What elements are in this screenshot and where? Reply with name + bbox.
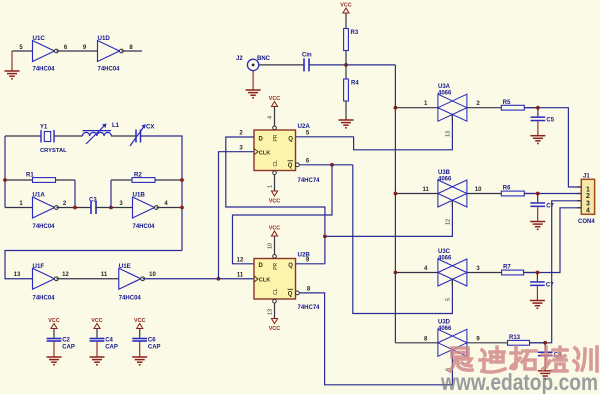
svg-text:U1B: U1B: [133, 192, 146, 199]
wire U3C input: [395, 266, 438, 273]
wire feedback to U1F: [5, 251, 182, 279]
resistor R3: [344, 13, 359, 65]
svg-text:Cin: Cin: [302, 53, 312, 59]
wire U1E out to U2B CLK: [143, 272, 255, 279]
wire R7 to junction: [524, 272, 538, 274]
node QB/U3B-ctrl: [323, 235, 327, 239]
svg-text:4066: 4066: [438, 256, 452, 262]
svg-text:C2: C2: [62, 338, 70, 344]
wire L1-CX: [111, 135, 136, 137]
U3A control pin 13: [446, 115, 453, 137]
connector J2 BNC: [236, 56, 271, 71]
svg-text:Y1: Y1: [40, 125, 48, 131]
svg-text:74HC04: 74HC04: [33, 67, 56, 73]
svg-text:D: D: [259, 137, 264, 143]
svg-text:C6: C6: [148, 338, 156, 344]
wire U3A to J1: [524, 108, 581, 187]
U2B CLR pin 13: [268, 299, 277, 318]
J1 pin 3: [577, 200, 590, 207]
svg-text:11: 11: [101, 272, 108, 278]
svg-text:PR: PR: [273, 262, 279, 269]
U2B PRE pin 10: [268, 236, 277, 258]
svg-text:CRYSTAL: CRYSTAL: [40, 148, 67, 154]
wire Qbar to U3C control: [353, 165, 453, 314]
svg-text:R5: R5: [503, 100, 511, 106]
svg-text:R13: R13: [509, 335, 521, 341]
node U1B-out: [180, 206, 184, 210]
wire U3D input: [395, 336, 438, 343]
ground (C2): [47, 357, 62, 365]
svg-text:C5: C5: [546, 118, 554, 124]
svg-text:R4: R4: [351, 81, 359, 87]
wire U2B Q: [296, 257, 325, 264]
svg-text:www.edatop.com: www.edatop.com: [440, 369, 598, 394]
svg-text:Q: Q: [288, 292, 293, 298]
node R7/C7: [536, 271, 540, 275]
wire U2A Qbar: [299, 158, 353, 165]
svg-text:11: 11: [423, 187, 430, 193]
svg-text:12: 12: [62, 272, 69, 278]
wire U1B out: [156, 201, 182, 208]
VCC (U2B PRE): [269, 226, 280, 237]
svg-text:CAP: CAP: [62, 345, 75, 351]
wire Cin to rail: [309, 64, 395, 66]
svg-text:U2A: U2A: [298, 123, 311, 130]
wire U3D output: [467, 336, 508, 343]
capacitor Cin: [302, 53, 312, 72]
resistor R2: [111, 173, 182, 208]
svg-text:CLK: CLK: [259, 151, 271, 157]
watermark: [440, 347, 598, 394]
node C3/R2 junction: [109, 206, 113, 210]
svg-text:CL: CL: [273, 288, 279, 295]
svg-text:1: 1: [268, 185, 274, 188]
resistor R5: [501, 100, 524, 110]
wire U1A out: [56, 201, 91, 208]
J1 pin 2: [577, 193, 590, 200]
wire U2A Q to U3A control: [296, 115, 453, 150]
node R3/R4 junction: [344, 63, 348, 67]
svg-text:C4: C4: [105, 338, 113, 344]
wire U1F-U1E: [56, 272, 118, 279]
svg-text:CAP: CAP: [148, 345, 161, 351]
ground (C7): [530, 222, 545, 230]
resistor R4: [344, 65, 360, 120]
svg-text:VCC: VCC: [269, 326, 280, 332]
node R5/C5: [536, 106, 540, 110]
wire QB to U3B control: [325, 201, 453, 236]
U3D control pin 6: [446, 350, 453, 371]
analog switch U3D 4066: [438, 319, 467, 356]
analog switch U3C 4066: [438, 249, 467, 286]
wire to crystal: [5, 135, 41, 137]
svg-text:U1E: U1E: [119, 263, 131, 270]
ground (R4): [339, 120, 354, 128]
inverter U1B: [133, 192, 159, 231]
wire BNC-Cin: [259, 64, 304, 66]
wire U3C output: [467, 266, 502, 273]
svg-text:4: 4: [268, 116, 274, 119]
svg-text:74HC04: 74HC04: [33, 224, 56, 230]
svg-text:CAP: CAP: [105, 345, 118, 351]
analog switch U3B 4066: [438, 170, 467, 207]
svg-text:10: 10: [268, 243, 274, 249]
resistor R7: [502, 265, 524, 275]
svg-text:74HC74: 74HC74: [298, 178, 321, 184]
svg-text:12: 12: [446, 219, 452, 225]
svg-text:4: 4: [586, 207, 590, 214]
U3B control pin 12: [446, 201, 453, 226]
svg-text:10: 10: [475, 187, 482, 193]
svg-text:3: 3: [586, 200, 590, 207]
svg-text:74HC04: 74HC04: [133, 224, 156, 230]
svg-text:2: 2: [586, 193, 590, 200]
ground (C7): [530, 301, 545, 309]
svg-text:U1D: U1D: [98, 35, 111, 42]
VCC (C2): [48, 318, 59, 329]
wire R13 to junction: [530, 342, 546, 344]
svg-text:R3: R3: [351, 30, 359, 36]
wire R6 to junction: [524, 193, 537, 195]
svg-text:13: 13: [446, 131, 452, 137]
op-amp U2B box: [254, 252, 320, 312]
resistor R13: [508, 335, 530, 345]
capacitor C3: [89, 198, 97, 215]
VCC (C6): [134, 318, 145, 329]
J1 pin 1: [577, 187, 590, 194]
node R6/C7: [536, 192, 540, 196]
U2A Qbar bubble: [296, 163, 300, 167]
svg-text:13: 13: [268, 309, 274, 315]
U2B Qbar bubble: [296, 291, 300, 295]
node R2-right: [180, 178, 184, 182]
variable capacitor CX: [130, 124, 154, 146]
wire crystal-L1: [54, 135, 83, 137]
svg-text:PR: PR: [273, 134, 279, 141]
svg-text:U1F: U1F: [33, 263, 45, 270]
inverter U1E: [119, 263, 145, 302]
wire signal rail: [394, 65, 396, 343]
svg-text:CX: CX: [146, 125, 154, 131]
ground (C5): [530, 136, 545, 144]
wire pin8: [121, 45, 142, 51]
svg-text:U3B: U3B: [438, 170, 451, 176]
svg-text:D: D: [259, 263, 264, 269]
svg-text:R2: R2: [134, 173, 142, 179]
connector J1 CON4: [578, 174, 595, 226]
wire U2B Qbar to U3D control: [299, 286, 452, 384]
svg-text:Q: Q: [288, 263, 293, 269]
svg-text:R6: R6: [503, 186, 511, 192]
node Qbar tap: [330, 163, 334, 167]
svg-text:U1A: U1A: [33, 192, 46, 199]
op-amp U2A box: [254, 123, 320, 184]
svg-text:J2: J2: [236, 56, 243, 62]
node CLK tap: [217, 277, 221, 281]
VCC (R3): [340, 3, 351, 14]
svg-text:C7: C7: [546, 282, 554, 288]
svg-text:VCC: VCC: [269, 199, 280, 205]
wire U3A output: [467, 101, 501, 108]
capacitor C2: [47, 329, 75, 358]
U2A CLR pin 1: [268, 171, 277, 191]
svg-text:BNC: BNC: [257, 56, 271, 62]
J1 pin 4: [577, 207, 590, 214]
wire CX to right rail: [141, 136, 183, 251]
wire pin5: [12, 45, 33, 51]
VCC (C4): [91, 318, 102, 329]
VCC (U2A CLR): [269, 191, 280, 205]
wire U3B output: [467, 187, 501, 194]
wire C3-U1B: [96, 201, 133, 208]
wire R5 to junction: [524, 107, 538, 109]
svg-text:74HC04: 74HC04: [98, 67, 121, 73]
wire CLK tap to U2A CLK: [219, 145, 255, 278]
node R1-left junction: [3, 178, 7, 182]
crystal Y1: [40, 125, 67, 155]
svg-text:R1: R1: [26, 173, 34, 179]
svg-text:74HC74: 74HC74: [298, 305, 321, 311]
capacitor C7: [530, 194, 554, 222]
svg-text:12: 12: [237, 257, 244, 263]
node U1A-out/R1: [73, 206, 77, 210]
ground (C6): [132, 357, 147, 365]
ground (U1C input): [5, 51, 20, 79]
svg-text:L1: L1: [112, 123, 120, 129]
wire U3C to J1: [524, 208, 582, 273]
svg-text:CON4: CON4: [578, 219, 595, 225]
U2B pin labels: [254, 262, 293, 297]
wire Qbar to U2B D: [233, 165, 333, 264]
capacitor C6: [132, 329, 160, 358]
capacitor C4: [90, 329, 118, 358]
U2A pin labels: [254, 134, 293, 169]
wire U3B input: [395, 187, 438, 194]
wire 6-9: [56, 45, 97, 51]
svg-text:CL: CL: [273, 160, 279, 167]
svg-text:4066: 4066: [438, 91, 452, 97]
svg-text:Q: Q: [288, 137, 293, 143]
U3C control pin 5: [446, 280, 453, 302]
svg-text:4066: 4066: [438, 326, 452, 332]
svg-text:U3D: U3D: [438, 319, 451, 325]
svg-text:U3C: U3C: [438, 249, 451, 255]
ground (C8): [538, 371, 553, 379]
analog switch U3A 4066: [438, 84, 467, 121]
VCC (U2B CLR): [269, 319, 280, 333]
wire U3D to J1: [530, 201, 582, 343]
svg-text:CLK: CLK: [259, 278, 271, 284]
node rail-U3C: [394, 271, 398, 275]
wire U2A D net (from U2B Q): [226, 131, 325, 264]
svg-text:C7: C7: [546, 203, 554, 209]
svg-text:74HC04: 74HC04: [33, 296, 56, 302]
capacitor C5: [531, 108, 555, 136]
svg-text:C3: C3: [89, 198, 97, 204]
ground (J2): [246, 71, 261, 98]
svg-text:R7: R7: [503, 265, 511, 271]
node R13/C8: [543, 341, 547, 345]
inverter U1F: [33, 263, 59, 302]
wire U3A input: [395, 101, 438, 108]
svg-text:U1C: U1C: [33, 35, 46, 42]
svg-text:4066: 4066: [438, 177, 452, 183]
resistor R6: [501, 186, 524, 196]
resistor R1: [5, 173, 75, 208]
svg-text:Q: Q: [288, 163, 293, 169]
U2A PRE pin 4: [268, 107, 277, 130]
node rail-U3A: [394, 106, 398, 110]
wire U3B to J1: [524, 193, 581, 195]
inverter U1C: [33, 35, 59, 73]
svg-text:74HC04: 74HC04: [119, 296, 142, 302]
VCC (U2A PRE): [269, 96, 280, 107]
inverter U1A: [5, 192, 58, 231]
svg-text:U3A: U3A: [438, 84, 451, 90]
wire left rail: [4, 136, 6, 208]
ground (C4): [90, 357, 105, 365]
svg-text:10: 10: [149, 272, 156, 278]
capacitor C7: [530, 273, 554, 301]
inverter U1D: [98, 35, 124, 73]
inductor L1: [83, 123, 120, 144]
svg-text:11: 11: [237, 272, 244, 278]
svg-text:5: 5: [446, 298, 452, 301]
capacitor C8: [538, 343, 562, 371]
svg-text:13: 13: [14, 272, 21, 278]
node rail-U3B: [394, 192, 398, 196]
svg-text:J1: J1: [583, 174, 590, 180]
